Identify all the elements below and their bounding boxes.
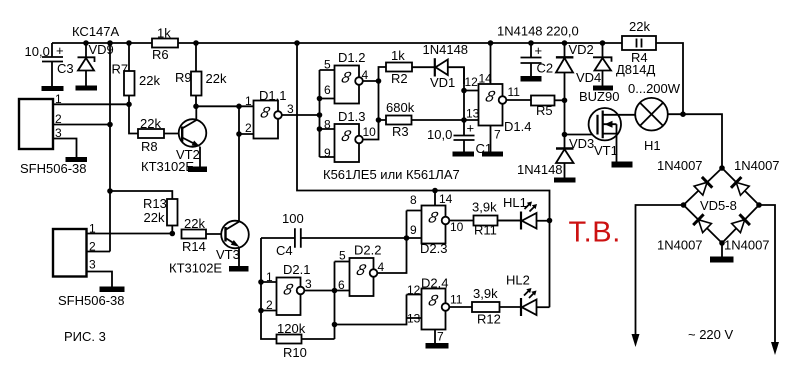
wire D2.1 out to D2.2 inputs [304,262,406,340]
node dot tie signal [317,112,323,118]
ground VT3 [229,266,249,272]
node dot bridge left [681,202,687,208]
LED HL2 [506,273,550,317]
resistor R9 [175,43,227,106]
wire D1.1 inputs tie / VT3 collector riser [239,106,254,221]
svg-text:12: 12 [465,75,479,89]
svg-text:R6: R6 [152,47,169,62]
bridge diode bottom-left 1N4007 [657,214,712,252]
wire Vdd rail to D2 chip [297,43,550,307]
svg-text:+: + [56,43,64,58]
svg-text:SFH506-38: SFH506-38 [58,293,124,308]
svg-text:C4: C4 [276,243,293,258]
svg-text:3: 3 [89,258,96,272]
wire AC right with arrow [759,205,779,355]
node dot D2.1 out tie [332,288,338,294]
svg-text:D1.1: D1.1 [259,88,286,103]
svg-text:11: 11 [450,293,463,307]
node dot rail/C2 [528,40,534,46]
svg-text:D1.3: D1.3 [338,109,365,124]
wire SFH1 pin1 to R7 [53,103,129,105]
svg-text:1N4148 220,0: 1N4148 220,0 [497,24,579,39]
svg-text:6: 6 [338,278,345,292]
svg-text:D1.2: D1.2 [338,50,365,65]
capacitor C4 [261,211,407,258]
svg-text:HL1: HL1 [503,195,527,210]
wire top supply rail [52,43,683,114]
IR receiver module SFH506-38 #2 [53,222,124,309]
resistor R12 [449,286,521,327]
wire AC left with arrow [632,205,684,347]
svg-text:10,0: 10,0 [427,127,452,142]
svg-text:4: 4 [362,68,369,82]
svg-text:R12: R12 [477,312,501,327]
svg-text:10: 10 [363,125,377,139]
svg-text:К561ЛЕ5 или К561ЛА7: К561ЛЕ5 или К561ЛА7 [323,167,460,182]
wire D2.3 pin14 [434,191,436,206]
ground D1.4 pin7 [482,152,503,157]
lamp H1 [628,81,681,153]
node dot bridge top [719,165,725,171]
node dot x110/R13 [107,188,113,194]
svg-text:R7: R7 [112,62,129,77]
node dot out4 [376,78,382,84]
svg-text:D2.2: D2.2 [354,243,381,258]
svg-text:D2.3: D2.3 [420,241,447,256]
svg-text:100: 100 [282,211,304,226]
MOSFET VT1 BUZ90 [565,89,636,162]
wire SFH2 pin1 to R13 [87,233,173,235]
ground VD3 [554,178,576,183]
svg-text:2: 2 [266,298,273,312]
ground SFH1 [66,157,88,162]
node dot bridge bottom [719,240,725,246]
ground C3 [42,86,64,91]
wire SFH1 pin3 [53,139,77,158]
svg-text:HL2: HL2 [506,273,530,288]
resistor R7 [112,43,161,104]
svg-text:R10: R10 [283,345,307,360]
svg-text:9: 9 [324,146,331,160]
gate D2.4 [407,276,463,344]
svg-text:22k: 22k [144,210,165,225]
svg-text:R3: R3 [392,124,409,139]
svg-text:22k: 22k [184,216,205,231]
svg-text:КТ3102Е: КТ3102Е [141,159,194,174]
svg-text:3,9k: 3,9k [472,200,497,215]
bridge diode top-right 1N4007 [731,158,780,196]
node dot rail/VD4 [600,40,606,46]
node dot D1.1 pin1 [236,104,242,110]
svg-text:5: 5 [324,58,331,72]
node dot rail/VD9 [83,40,89,46]
svg-text:1N4148: 1N4148 [517,162,563,177]
svg-text:3,9k: 3,9k [473,286,498,301]
svg-text:C2: C2 [537,61,554,76]
svg-text:R11: R11 [474,223,497,238]
node dot D2.1 pin1 [258,279,264,285]
transistor VT3 KT3102E [169,221,249,276]
svg-text:680k: 680k [386,100,415,115]
wire D1.1 output [282,114,320,116]
svg-text:SFH506-38: SFH506-38 [20,161,86,176]
wire D1.2/D1.3 output tie [363,67,386,140]
ground bridge [710,257,734,263]
svg-text:1N4007: 1N4007 [734,158,780,173]
svg-text:1N4148: 1N4148 [423,42,469,57]
node dot R10/D2.4 tie [332,322,338,328]
LED HL1 [498,195,550,230]
svg-text:1: 1 [266,270,273,284]
node dot gate node [562,132,568,138]
svg-text:120k: 120k [277,321,306,336]
capacitor C1 [427,121,492,157]
gate D1.2 [324,50,369,104]
svg-text:22k: 22k [139,73,160,88]
svg-text:5: 5 [339,249,346,263]
svg-text:9: 9 [410,223,417,237]
wire D2.1 input column [261,238,277,339]
svg-text:22k: 22k [629,19,650,34]
svg-text:10,0: 10,0 [25,44,50,59]
svg-text:R2: R2 [391,71,408,86]
svg-text:VD3: VD3 [569,136,594,151]
wire SFH2 pin3 [87,272,113,287]
gate D1.4 [465,72,532,142]
resistor R2 [386,48,412,86]
node dot D2.1 pin2 [258,308,264,314]
resistor R10 [277,321,335,360]
wire R8 to VT2 base [164,133,182,135]
node dot R7 bottom [126,102,132,108]
node dot bridge right [756,202,762,208]
wire VD2 node to gate node [564,100,566,134]
wire R7 bottom to R8 [129,104,138,133]
ground VT1 [612,162,633,168]
diode VD3 1N4148 [517,135,594,178]
node dot C4/D2.3 pin9 [404,235,410,241]
gate D2.1 [266,262,312,315]
IR receiver module SFH506-38 #1 [19,92,86,176]
transistor VT2 KT3102E [141,106,206,174]
svg-text:1: 1 [245,94,252,108]
svg-text:КТ3102Е: КТ3102Е [169,261,222,276]
node dot tie pin6 [317,96,323,102]
svg-text:D1.4: D1.4 [504,119,531,134]
node dot rail/VD2 [562,40,568,46]
node dot pin13 [461,117,467,123]
resistor R14 [182,216,207,254]
node dot rail/R9 [193,40,199,46]
svg-text:РИС. 3: РИС. 3 [64,329,106,344]
svg-text:R14: R14 [182,239,206,254]
ground VD9 [76,86,98,91]
svg-text:VD5-8: VD5-8 [700,198,737,213]
svg-text:VT1: VT1 [594,143,618,158]
zener VD4 D814D [576,43,655,86]
node dot D2 pin14 rail [432,188,438,194]
diode bridge VD5-8 [684,168,760,243]
wire D1.4 input node column [464,67,479,135]
node dot pin2/x110 [107,122,113,128]
wire D2.4 pin7 [434,330,436,344]
wire R14 to VT3 base [206,233,226,235]
svg-text:1k: 1k [157,26,171,41]
node dot pin12 [461,88,467,94]
node dot R13 bottom [170,231,176,237]
svg-text:~ 220 V: ~ 220 V [688,327,734,342]
svg-text:+: + [467,121,475,136]
wire lamp to bridge [668,114,722,168]
node dot tie pin8 [317,126,323,132]
ground C1 [453,152,475,157]
svg-text:4: 4 [378,260,385,274]
wire D2.4 input connector [407,295,422,319]
ground VD4 [593,86,613,91]
wire R13 top feed [110,191,172,199]
resistor R13 [143,196,178,234]
svg-text:1N4007: 1N4007 [657,238,703,253]
svg-text:13: 13 [466,107,480,121]
svg-text:BUZ90: BUZ90 [579,89,619,104]
svg-text:C1: C1 [476,141,493,156]
svg-text:11: 11 [508,85,521,99]
svg-text:VD1: VD1 [430,75,455,90]
svg-text:R9: R9 [175,70,192,85]
wire bridge bottom to ground [721,243,723,257]
svg-text:R5: R5 [536,103,553,118]
capacitor C3 [25,43,74,86]
node dot rail/x297 [294,40,300,46]
bridge diode bottom-right 1N4007 [724,214,770,252]
svg-text:R13: R13 [143,196,167,211]
wire D1.4 pin7 [490,126,492,152]
node dot D1.1 pin2 [236,131,242,137]
svg-text:7: 7 [437,330,444,344]
svg-text:6: 6 [324,83,331,97]
zener VD9 KC147A [72,24,120,86]
node dot pin14 rail [488,40,494,46]
wire D2.2 out to D2.3 inputs [377,211,421,274]
resistor R6 [152,26,178,63]
capacitor C2 [521,43,554,76]
wire supply drop x=110 [109,43,111,252]
wire D1.4 pin14 to rail [490,43,492,84]
gate D1.1 [245,88,294,139]
svg-text:Т.В.: Т.В. [569,217,621,249]
svg-text:C3: C3 [57,61,74,76]
svg-text:22k: 22k [206,71,227,86]
wire SFH1 pin2 to supply drop [53,124,110,126]
svg-text:R8: R8 [141,139,158,154]
node dot lamp/R4 [680,111,686,117]
svg-text:3: 3 [305,277,312,291]
ground C2 [521,76,542,82]
resistor R4 [622,19,656,65]
svg-text:14: 14 [439,192,453,206]
ground SFH2 [100,287,125,293]
svg-text:VD2: VD2 [569,42,594,57]
node dot rail/x110 [107,40,113,46]
svg-text:8: 8 [410,193,417,207]
resistor R3 [386,100,464,139]
wire D1.4 output [506,99,531,101]
svg-text:2: 2 [245,121,252,135]
svg-text:22k: 22k [140,116,161,131]
ground D2.4 [426,343,449,349]
svg-text:H1: H1 [644,138,661,153]
resistor R11 [449,200,520,238]
ground VT2 [188,167,207,173]
svg-text:D2.4: D2.4 [421,276,448,291]
node dot rail/R7 [126,40,132,46]
svg-text:1N4007: 1N4007 [724,238,770,253]
wire D1.2/D1.3 input tie column [320,70,335,157]
svg-text:10: 10 [450,220,464,234]
node dot R5/VD2 [562,98,568,104]
svg-text:8: 8 [324,118,331,132]
node dot R9 bottom [193,104,199,110]
svg-text:+: + [535,43,543,58]
svg-text:0...200W: 0...200W [628,81,681,96]
gate D2.2 [338,243,385,297]
resistor R5 [531,96,565,119]
svg-text:D2.1: D2.1 [283,262,310,277]
svg-text:1k: 1k [391,48,405,63]
svg-text:3: 3 [287,102,294,116]
wire SFH2 pin2 riser [87,251,111,253]
svg-text:1N4007: 1N4007 [657,158,703,173]
gate D1.3 [324,109,376,162]
svg-text:КС147А: КС147А [72,24,120,39]
svg-text:7: 7 [494,128,501,142]
wire VT2 collector node to D1.1 [196,105,254,107]
diode VD2 1N4148 [556,42,594,100]
node dot R3 left [376,117,382,123]
resistor R8 [138,116,164,154]
bridge diode top-left 1N4007 [657,158,712,196]
svg-text:R4: R4 [631,50,648,65]
diode VD1 1N4148 [412,42,468,90]
node dot HL1/rail [547,218,553,224]
gate D2.3 [410,192,464,256]
svg-text:VD4: VD4 [576,70,601,85]
